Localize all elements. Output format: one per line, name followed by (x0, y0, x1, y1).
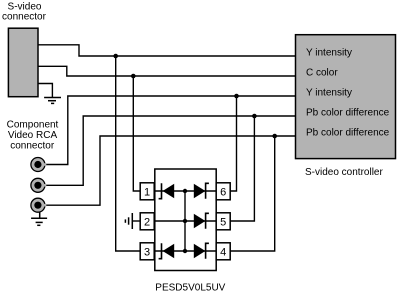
controller port labels (306, 48, 390, 139)
svg-text:6: 6 (220, 187, 226, 199)
junction: Pr net / pin4 branch (272, 134, 277, 139)
zener diode D1b (row1 right, cathode to pin6) (194, 183, 209, 199)
wire: row1 internal rail (155, 190, 216, 192)
svg-text:5: 5 (220, 217, 226, 229)
junction: rail row1 (183, 189, 187, 193)
wire: RCA Y to controller Y intensity (row 3) (44, 96, 296, 165)
junction: rail row2 (183, 219, 187, 223)
zener diode D3a (row3 left, cathode to pin3) (159, 243, 175, 259)
wire: RCA Pr to controller Pb color difference (row 5) (44, 136, 296, 205)
wire: row3 internal rail (155, 250, 216, 252)
ground (pin 2, rotated) (125, 213, 132, 229)
RCA jack J2 (Y) (31, 158, 46, 172)
wire: branch Pr net to pin 4 (230, 136, 275, 251)
svg-text:Y intensity: Y intensity (306, 88, 352, 99)
label: Component Video RCA connector (7, 120, 59, 152)
svg-text:4: 4 (220, 247, 226, 259)
svg-text:1: 1 (144, 187, 150, 199)
wire: center common rail (184, 191, 186, 251)
label: S-video connector (2, 1, 47, 22)
svg-text:Pb color difference: Pb color difference (306, 128, 390, 139)
svg-text:C color: C color (306, 68, 338, 79)
S-video controller U2 (box) (296, 35, 396, 159)
pin 5 (216, 213, 230, 230)
svg-text:Video RCA: Video RCA (8, 130, 58, 141)
wire: RCA Pb to controller Pb color difference (row 4) (44, 116, 296, 185)
zener diode D2 (row2 right, cathode to pin5) (194, 213, 209, 229)
zener diode D3b (row3 right, cathode to pin4) (194, 243, 209, 258)
pin 2 (140, 213, 154, 230)
svg-text:S-video controller: S-video controller (305, 167, 383, 178)
junction: C net / pin1 branch (131, 74, 136, 79)
S-video connector J1 (box) (8, 28, 38, 97)
pin 4 (216, 243, 230, 260)
svg-text:2: 2 (144, 217, 150, 229)
svg-text:PESD5V0L5UV: PESD5V0L5UV (155, 283, 225, 294)
RCA jack J3 (Pb) (31, 178, 46, 192)
wire: S-video ground lead (38, 84, 52, 98)
zener diode D1a (row1 left, cathode to pin1) (159, 183, 175, 199)
wire: branch C net to pin 1 (133, 76, 140, 191)
pin 1 (140, 183, 154, 200)
junction: Pb net / pin5 branch (252, 114, 257, 119)
pin 6 (216, 183, 230, 200)
ESD protection array U1 PESD5V0L5UV (body) (155, 169, 216, 271)
svg-text:connector: connector (10, 140, 55, 151)
RCA jack J4 (Pr) (31, 198, 46, 212)
wire: S-video Y output to controller Y intensity (38, 45, 296, 56)
wire: branch RCA-Y net to pin 6 (230, 96, 236, 191)
svg-text:Pb color difference: Pb color difference (306, 108, 390, 119)
svg-text:connector: connector (2, 12, 47, 23)
wire: branch Pb net to pin 5 (230, 116, 254, 221)
wire: S-video C output to controller C color (38, 66, 296, 76)
svg-text:Y intensity: Y intensity (306, 48, 352, 59)
wire: pin2 to ground (132, 220, 140, 222)
junction: rail row3 (183, 249, 187, 253)
junction: Y net / pin3 branch (113, 54, 118, 59)
wire: row2 internal rail (155, 220, 216, 222)
ground (RCA connector) (31, 212, 47, 225)
ground (S-video connector) (44, 98, 61, 104)
wire: branch Y net to pin 3 (116, 56, 141, 251)
pin 3 (140, 243, 154, 260)
svg-text:3: 3 (144, 247, 150, 259)
junction: RCA-Y net / pin6 branch (234, 94, 239, 99)
